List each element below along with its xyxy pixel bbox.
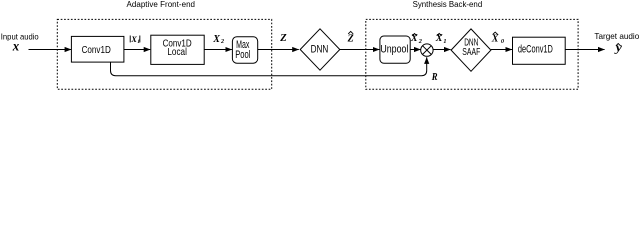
svg-text:X: X: [435, 33, 443, 44]
svg-text:X: X: [130, 34, 137, 44]
svg-text:Z: Z: [279, 33, 287, 44]
svg-text:deConv1D: deConv1D: [518, 44, 553, 56]
svg-text:Unpool: Unpool: [380, 44, 408, 56]
svg-text:Pool: Pool: [235, 49, 250, 61]
svg-text:Input audio: Input audio: [1, 32, 39, 42]
svg-text:1: 1: [137, 39, 140, 45]
svg-text:Synthesis Back-end: Synthesis Back-end: [413, 0, 483, 9]
svg-text:X: X: [212, 34, 220, 45]
svg-text:Local: Local: [167, 47, 187, 58]
svg-text:2: 2: [418, 38, 422, 45]
svg-text:X: X: [491, 33, 499, 44]
svg-text:Conv1D: Conv1D: [82, 45, 111, 56]
svg-text:2: 2: [220, 39, 224, 45]
svg-text:x: x: [12, 39, 20, 54]
svg-text:Target audio: Target audio: [594, 31, 639, 41]
svg-text:DNN: DNN: [311, 44, 329, 56]
svg-text:Adaptive Front-end: Adaptive Front-end: [127, 0, 196, 9]
svg-text:1: 1: [443, 38, 446, 45]
svg-text:SAAF: SAAF: [462, 47, 480, 58]
svg-text:R: R: [431, 72, 438, 83]
svg-text:Z: Z: [347, 34, 354, 45]
svg-text:y: y: [614, 41, 623, 55]
svg-text:X: X: [410, 33, 418, 44]
